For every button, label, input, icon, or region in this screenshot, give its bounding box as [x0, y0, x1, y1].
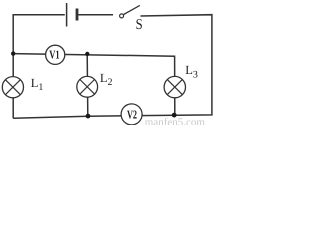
svg-text:manfen5.com: manfen5.com — [145, 117, 206, 125]
svg-text:V1: V1 — [49, 47, 59, 61]
svg-text:V2: V2 — [127, 108, 137, 122]
svg-text:S: S — [136, 17, 143, 33]
